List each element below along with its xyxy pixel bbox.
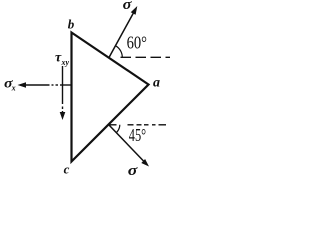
svg-text:c: c <box>64 162 70 177</box>
tau_xy arrow <box>62 66 64 114</box>
svg-text:xy: xy <box>61 58 70 67</box>
svg-text:σ: σ <box>123 0 133 13</box>
dashed reference line (top) <box>121 56 171 58</box>
svg-text:x: x <box>11 84 16 93</box>
sigma_x arrow <box>25 84 73 86</box>
sigma arrow at 60 deg (top) <box>109 11 135 58</box>
dashed reference line (bottom) <box>109 124 167 126</box>
svg-text:45°: 45° <box>129 125 146 145</box>
sigma arrow at 45 deg (bottom) <box>109 125 145 162</box>
svg-text:60°: 60° <box>127 33 147 53</box>
svg-text:b: b <box>68 17 75 32</box>
triangle element abc <box>72 33 149 162</box>
svg-text:a: a <box>153 76 160 91</box>
60 deg arc <box>116 46 123 58</box>
45 deg arc <box>117 125 120 133</box>
svg-text:σ: σ <box>128 163 139 177</box>
